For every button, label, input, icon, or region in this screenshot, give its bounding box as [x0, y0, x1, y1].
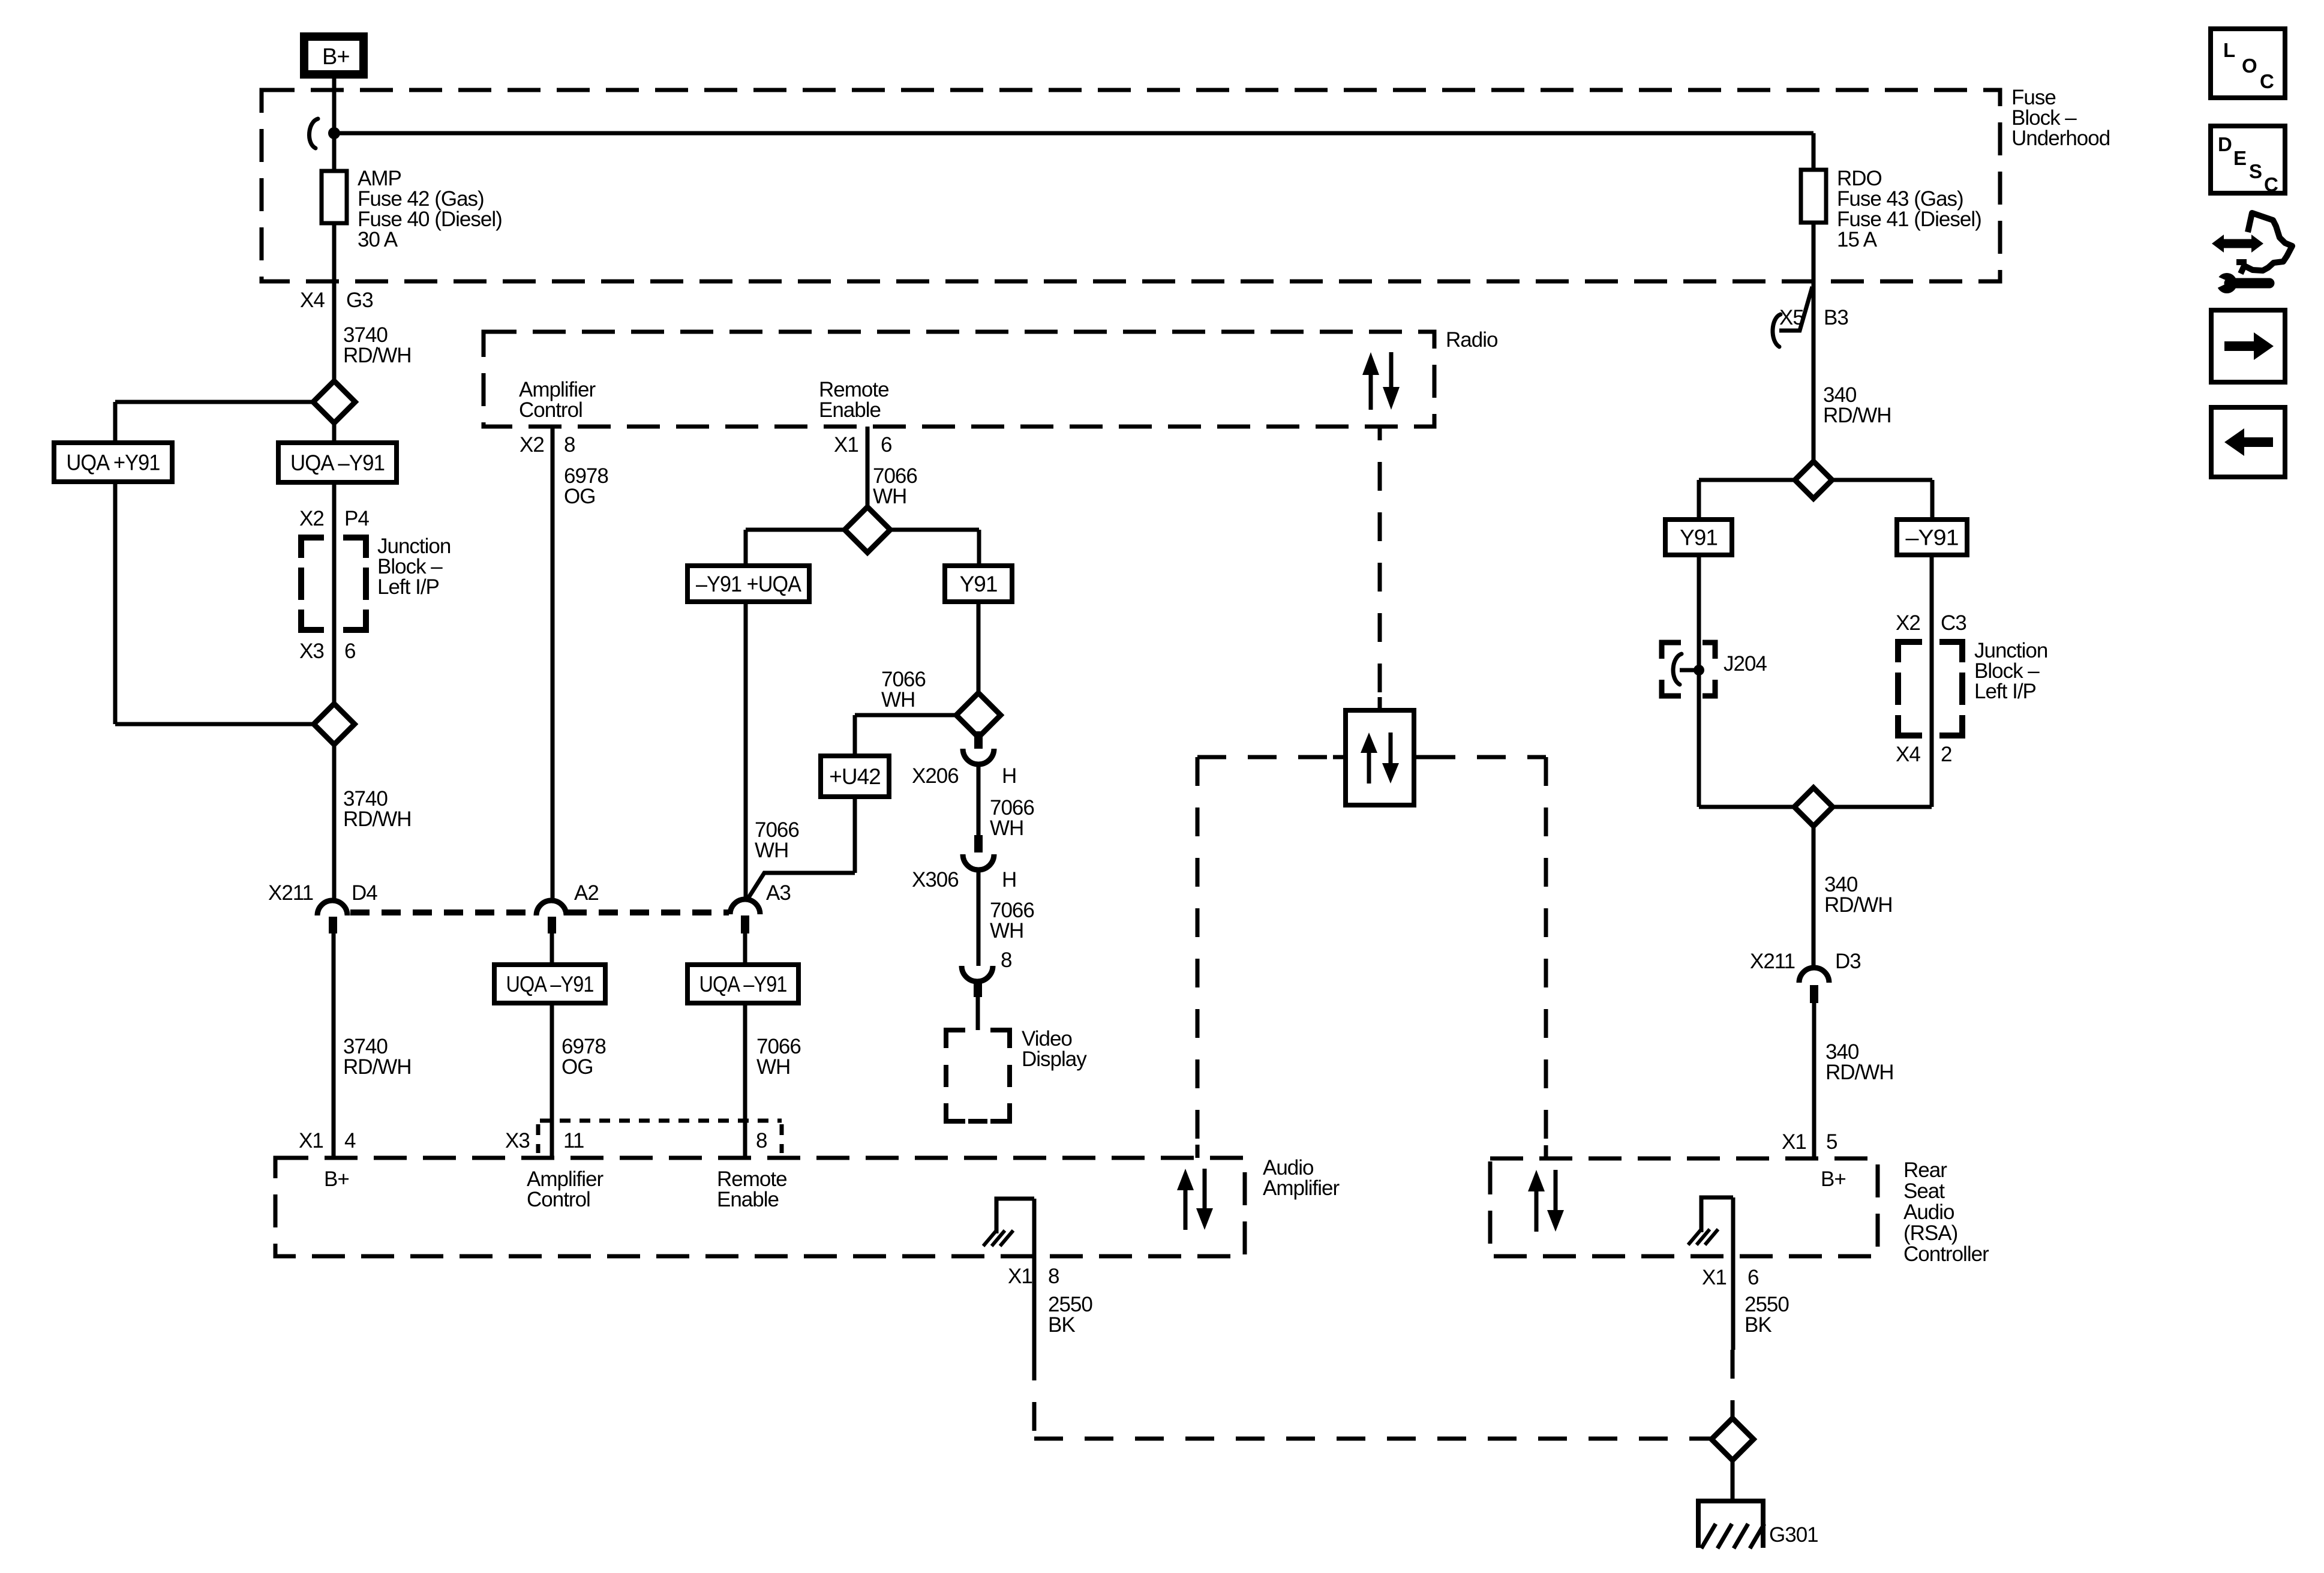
svg-text:WH: WH	[990, 919, 1023, 942]
svg-text:Y91: Y91	[1680, 526, 1718, 550]
svg-text:X4: X4	[1896, 743, 1920, 766]
svg-text:B3: B3	[1824, 306, 1848, 329]
svg-text:RD/WH: RD/WH	[343, 344, 412, 367]
svg-text:UQA –Y91: UQA –Y91	[506, 972, 594, 996]
svg-text:WH: WH	[881, 688, 915, 712]
svg-text:J204: J204	[1724, 652, 1767, 676]
svg-text:D3: D3	[1835, 950, 1861, 973]
svg-text:Controller: Controller	[1903, 1242, 1989, 1266]
svg-text:O: O	[2242, 55, 2257, 77]
svg-text:X206: X206	[912, 764, 959, 788]
svg-text:X1: X1	[299, 1129, 323, 1152]
svg-text:X3: X3	[505, 1129, 530, 1152]
svg-text:WH: WH	[873, 485, 906, 508]
svg-text:Control: Control	[519, 398, 582, 422]
svg-text:Enable: Enable	[717, 1188, 779, 1211]
svg-text:X1: X1	[1782, 1130, 1806, 1154]
svg-text:D4: D4	[352, 881, 377, 905]
svg-text:OG: OG	[564, 485, 595, 508]
svg-text:Control: Control	[527, 1188, 590, 1211]
svg-text:15 A: 15 A	[1837, 228, 1878, 251]
svg-text:A3: A3	[766, 881, 791, 905]
svg-text:Seat: Seat	[1903, 1179, 1945, 1203]
svg-text:–Y91 +UQA: –Y91 +UQA	[696, 572, 801, 596]
svg-text:P4: P4	[344, 507, 369, 530]
svg-text:6: 6	[1747, 1266, 1758, 1289]
svg-text:X306: X306	[912, 868, 959, 891]
svg-text:L: L	[2223, 39, 2235, 61]
svg-text:8: 8	[1001, 948, 1011, 972]
svg-text:Left I/P: Left I/P	[377, 575, 439, 599]
svg-text:X3: X3	[299, 640, 324, 663]
svg-text:Enable: Enable	[819, 398, 881, 422]
svg-text:X5: X5	[1779, 306, 1804, 329]
svg-text:B+: B+	[1821, 1167, 1846, 1191]
svg-text:4: 4	[344, 1129, 356, 1152]
svg-text:RD/WH: RD/WH	[343, 1055, 412, 1079]
svg-text:RD/WH: RD/WH	[1825, 1061, 1894, 1084]
svg-text:WH: WH	[990, 816, 1023, 840]
svg-text:X2: X2	[1896, 611, 1920, 635]
svg-text:D: D	[2218, 133, 2232, 155]
svg-text:Amplifier: Amplifier	[1263, 1176, 1340, 1200]
svg-text:UQA –Y91: UQA –Y91	[699, 972, 787, 996]
svg-text:8: 8	[1048, 1265, 1059, 1288]
svg-text:Underhood: Underhood	[2011, 127, 2110, 150]
svg-text:RD/WH: RD/WH	[343, 807, 412, 831]
svg-text:RD/WH: RD/WH	[1823, 404, 1891, 427]
svg-text:Radio: Radio	[1446, 328, 1497, 352]
svg-text:Audio: Audio	[1903, 1200, 1954, 1224]
svg-text:WH: WH	[755, 839, 788, 862]
svg-text:B+: B+	[322, 44, 350, 70]
svg-text:(RSA): (RSA)	[1903, 1221, 1957, 1245]
svg-text:11: 11	[563, 1129, 584, 1152]
svg-text:5: 5	[1826, 1130, 1837, 1154]
svg-text:Y91: Y91	[960, 572, 998, 596]
svg-text:8: 8	[564, 433, 575, 457]
svg-text:C3: C3	[1941, 611, 1966, 635]
svg-text:8: 8	[756, 1129, 767, 1152]
svg-text:X1: X1	[834, 433, 858, 457]
svg-text:WH: WH	[756, 1055, 790, 1079]
svg-text:X211: X211	[268, 881, 313, 905]
svg-text:BK: BK	[1048, 1313, 1075, 1337]
svg-text:X2: X2	[520, 433, 544, 457]
svg-text:Left I/P: Left I/P	[1974, 680, 2036, 703]
svg-text:C: C	[2264, 173, 2278, 196]
svg-text:Rear: Rear	[1903, 1158, 1947, 1182]
svg-text:X1: X1	[1008, 1265, 1032, 1288]
svg-text:C: C	[2260, 70, 2274, 92]
svg-text:A2: A2	[574, 881, 599, 905]
svg-text:+U42: +U42	[829, 764, 880, 789]
svg-text:6: 6	[881, 433, 891, 457]
svg-text:X4: X4	[300, 289, 325, 312]
svg-text:G3: G3	[346, 289, 373, 312]
svg-text:X2: X2	[299, 507, 324, 530]
svg-text:UQA +Y91: UQA +Y91	[67, 451, 160, 475]
svg-text:H: H	[1002, 764, 1016, 788]
svg-text:S: S	[2249, 160, 2262, 182]
svg-text:RD/WH: RD/WH	[1824, 893, 1893, 917]
svg-text:–Y91: –Y91	[1906, 526, 1959, 550]
svg-text:E: E	[2233, 147, 2246, 169]
svg-text:BK: BK	[1744, 1313, 1771, 1337]
svg-text:X1: X1	[1702, 1266, 1727, 1289]
svg-text:G301: G301	[1769, 1523, 1818, 1547]
svg-text:6: 6	[344, 640, 355, 663]
svg-text:2: 2	[1941, 743, 1951, 766]
svg-text:X211: X211	[1750, 950, 1795, 973]
svg-text:UQA –Y91: UQA –Y91	[290, 451, 385, 475]
svg-text:OG: OG	[562, 1055, 593, 1079]
svg-text:30 A: 30 A	[358, 228, 398, 251]
svg-text:B+: B+	[324, 1167, 349, 1191]
svg-text:Display: Display	[1022, 1047, 1087, 1071]
svg-text:H: H	[1002, 868, 1016, 891]
